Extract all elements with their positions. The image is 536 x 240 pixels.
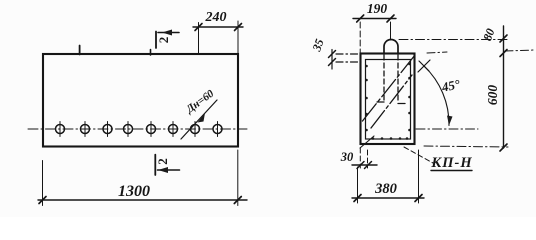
rebar dots bottom <box>372 137 409 140</box>
svg-text:2: 2 <box>156 37 171 44</box>
dimension 35 (left of section) <box>329 50 362 70</box>
dimension 240 <box>193 21 243 54</box>
leader line Дн=60 <box>181 100 217 139</box>
rebar dots right <box>408 63 411 132</box>
dimension 380 <box>352 150 424 203</box>
hatch diagonal short (bottom-left) <box>360 136 374 148</box>
hole 2 <box>81 122 90 137</box>
dimension text 1300 <box>118 183 150 200</box>
hole 7 <box>191 122 200 137</box>
45 degree arc with arrow <box>424 66 453 126</box>
svg-text:190: 190 <box>367 1 388 16</box>
lifting loop <box>377 40 405 104</box>
section mark 2 (top) <box>156 30 179 49</box>
hole 8 <box>213 122 222 137</box>
centerline through holes <box>28 128 247 130</box>
section outline (view 2-2) <box>361 54 415 145</box>
svg-text:380: 380 <box>374 181 397 197</box>
svg-text:1300: 1300 <box>118 183 150 200</box>
hatch diagonal 1 <box>363 55 416 121</box>
centerline under 45 arc <box>416 128 478 130</box>
underline of product mark <box>431 170 472 172</box>
hole 4 <box>124 122 133 137</box>
reinforcement cage inner rectangle <box>366 60 411 140</box>
diagonal extension with cross mark <box>418 60 430 72</box>
section digit 2 (bottom) <box>155 158 170 165</box>
dimension text 35 <box>309 37 327 54</box>
top-edge extension line (right) <box>427 50 534 53</box>
svg-text:30: 30 <box>340 150 354 164</box>
loop-top extension line <box>399 39 508 41</box>
svg-text:КП-Н: КП-Н <box>430 155 472 171</box>
dimension 190 <box>353 15 396 53</box>
leader to product mark <box>404 147 433 163</box>
dimension line 80/600 (right side) <box>500 26 507 151</box>
bottom-edge extension line (right) <box>424 146 508 147</box>
section mark 2 (bottom) <box>155 155 179 175</box>
loop tick left on top edge <box>79 46 81 55</box>
section digit 2 (top) <box>156 37 171 44</box>
hole 5 <box>147 122 156 137</box>
hole 6 <box>169 122 178 137</box>
dimension text 190 <box>367 1 388 16</box>
dimension text 30 <box>340 150 354 164</box>
hole 1 <box>56 122 65 137</box>
angle text 45 <box>439 76 462 95</box>
rebar dots left <box>365 65 368 132</box>
svg-text:240: 240 <box>205 10 227 25</box>
panel outline (elevation view) <box>43 54 238 147</box>
dimension 1300 <box>38 150 247 206</box>
svg-text:2: 2 <box>155 158 170 165</box>
svg-text:600: 600 <box>485 85 500 106</box>
dimension text 380 <box>374 181 397 197</box>
value label Дн=60 <box>183 87 216 116</box>
loop tick right on top edge <box>150 50 152 56</box>
dimension text 80 <box>480 27 497 43</box>
dimension text 600 <box>485 85 500 106</box>
hatch diagonal 2 <box>371 75 412 128</box>
dimension 30 (bottom left of section) <box>352 148 377 169</box>
dimension text 240 <box>205 10 227 25</box>
product mark КП-Н <box>430 155 472 171</box>
hole 3 <box>103 122 112 137</box>
